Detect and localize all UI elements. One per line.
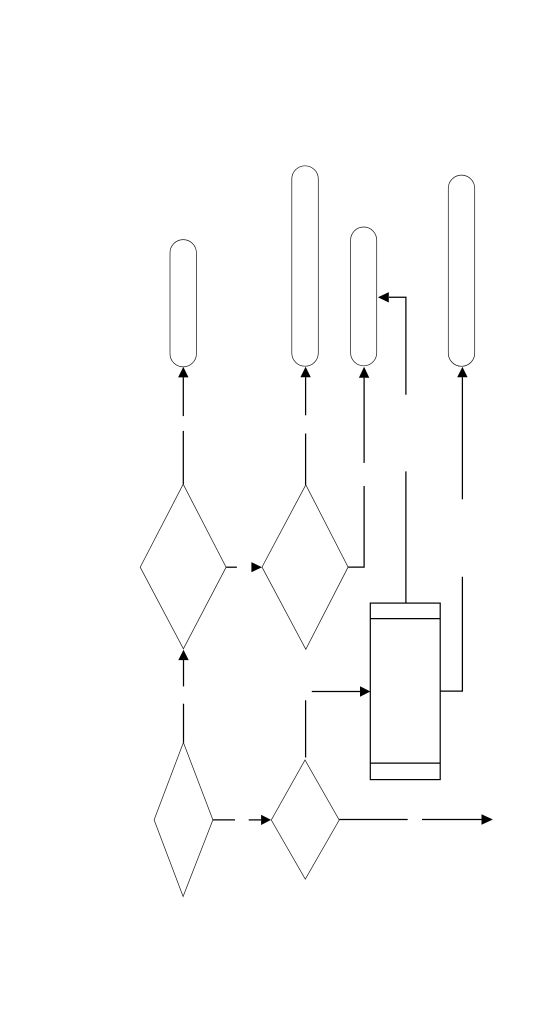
wire C8b: upper segment into S4 bottom xyxy=(461,377,463,499)
arrowhead C6 into S3 right xyxy=(378,292,389,302)
process R top band line xyxy=(370,618,440,620)
decision D3 (lower-left diamond) xyxy=(154,743,213,897)
arrowhead C9 off-page right xyxy=(482,814,493,825)
wire C1a: from D1 top upward (lower segment) xyxy=(182,431,184,484)
wire C5b: upper segment into S3 bottom xyxy=(363,378,365,463)
arrowhead C2 into D1 bottom xyxy=(178,650,188,660)
arrowhead C3 into D2 left xyxy=(251,562,262,572)
decision D1 (upper-left diamond) xyxy=(140,484,226,649)
wire C1b: upper segment into S1 xyxy=(182,377,184,416)
terminator S4 (top-right stadium) xyxy=(448,175,474,366)
wire C6b: upper segment with elbow left into S3 right xyxy=(389,297,406,394)
arrowhead C5 into S3 bottom xyxy=(359,367,369,378)
arrowhead C7 into R left xyxy=(360,686,370,696)
process R bottom band line xyxy=(370,762,440,764)
wire C8a: from R right side, elbow up (lower segment) xyxy=(440,577,462,691)
arrowhead C4 into S2 bottom xyxy=(300,367,310,378)
wire C9a: from D4 right vertex rightward xyxy=(339,819,408,821)
wire C5a: from D2 right vertex, elbow up (lower segment) xyxy=(348,486,364,567)
wire C4a: from D2 top upward (lower segment) xyxy=(305,434,307,485)
decision D4 (lower-middle diamond) xyxy=(271,760,339,879)
wire C2a: from D3 top upward (lower segment) xyxy=(183,704,185,743)
arrowhead C1 into S1 bottom xyxy=(178,367,188,378)
arrowhead C10 into D4 left xyxy=(261,815,271,825)
wire C6a: from R top upward (lower segment) xyxy=(405,471,407,603)
wire C10b: segment into D4 left vertex xyxy=(249,819,261,821)
wire C9b: right segment of off-page arrow xyxy=(422,819,482,821)
wire C2b: upper segment into D1 bottom xyxy=(183,660,185,687)
arrowhead C8 into S4 bottom xyxy=(457,367,467,377)
wire C3a: from D1 right vertex rightward xyxy=(226,566,237,568)
process R (predefined process rectangle) xyxy=(370,603,440,780)
wire C7a: horizontal segment into R left side xyxy=(312,691,360,693)
terminator S3 (short middle stadium) xyxy=(351,227,377,366)
terminator S2 (tall middle stadium) xyxy=(292,166,319,366)
decision D2 (upper-middle diamond) xyxy=(262,485,348,650)
wire C7b: vertical segment from D4 top xyxy=(305,700,307,757)
wire C4b: upper segment into S2 xyxy=(305,377,307,415)
wire C10a: from D3 right vertex rightward xyxy=(213,819,235,821)
terminator S1 (top-left stadium) xyxy=(170,240,196,367)
